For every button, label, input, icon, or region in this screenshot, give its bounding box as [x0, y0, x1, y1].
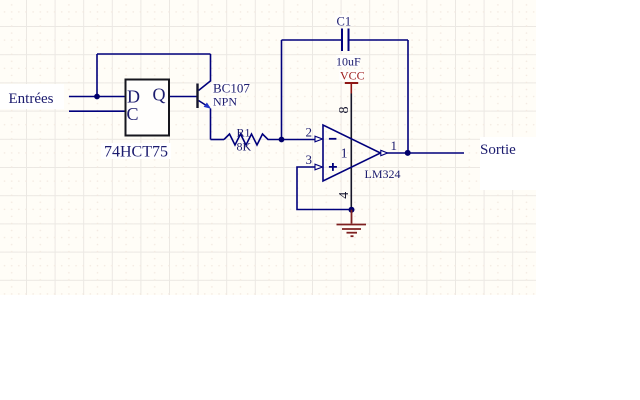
svg-text:R1: R1: [237, 126, 251, 140]
svg-text:NPN: NPN: [213, 95, 237, 109]
svg-text:3: 3: [306, 152, 313, 167]
svg-text:8: 8: [337, 107, 352, 114]
svg-text:1: 1: [341, 147, 348, 162]
svg-text:C: C: [127, 104, 139, 124]
svg-text:Q: Q: [153, 85, 166, 105]
svg-text:Sortie: Sortie: [480, 142, 516, 158]
svg-text:8K: 8K: [237, 140, 252, 154]
svg-text:10uF: 10uF: [336, 55, 361, 69]
svg-text:74HCT75: 74HCT75: [104, 143, 168, 160]
svg-text:VCC: VCC: [340, 69, 365, 83]
svg-text:1: 1: [391, 138, 398, 153]
svg-text:4: 4: [337, 192, 352, 199]
svg-text:C1: C1: [337, 14, 352, 28]
svg-text:LM324: LM324: [365, 167, 401, 181]
svg-text:BC107: BC107: [213, 81, 250, 96]
svg-text:Entrées: Entrées: [9, 91, 54, 107]
svg-text:2: 2: [306, 124, 313, 139]
